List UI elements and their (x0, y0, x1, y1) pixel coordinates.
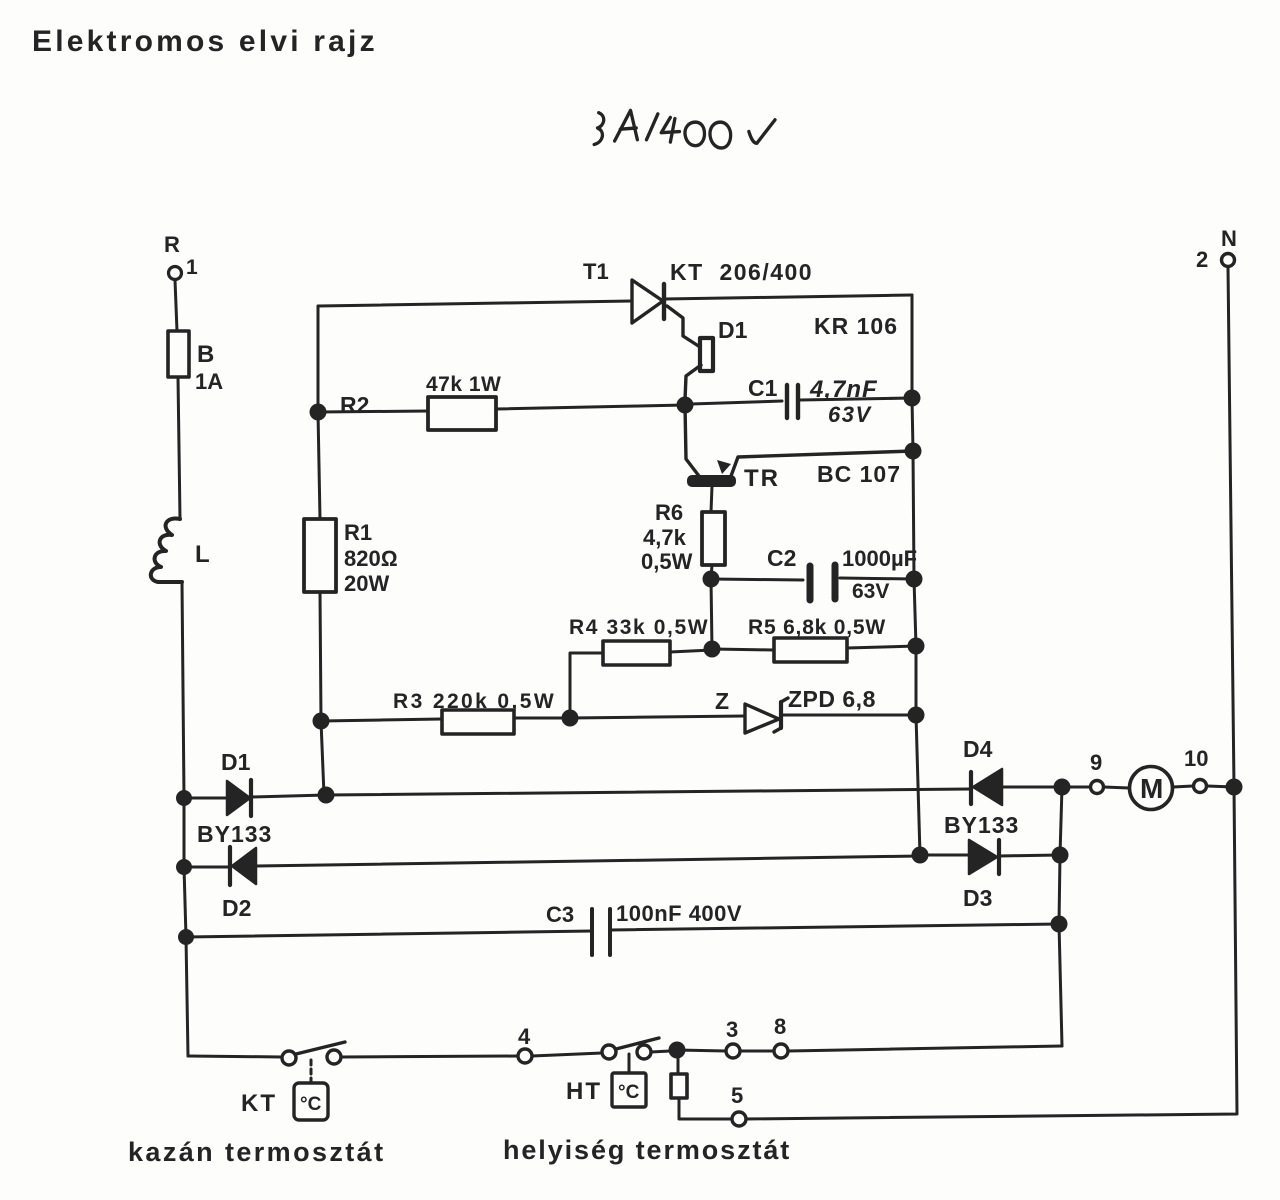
svg-text:R3 220k 0,5W: R3 220k 0,5W (393, 690, 556, 713)
wire (570, 653, 603, 718)
svg-text:1000µF: 1000µF (842, 546, 917, 571)
svg-text:3: 3 (726, 1017, 738, 1042)
wire (532, 1053, 602, 1056)
node (562, 710, 579, 727)
wire (1173, 786, 1193, 787)
svg-text:8: 8 (774, 1014, 786, 1039)
wire bottom row to node 8 (788, 1046, 1062, 1051)
svg-text:4: 4 (518, 1024, 531, 1049)
svg-text:0,5W: 0,5W (641, 549, 693, 574)
capacitor C2 1000uF 63V (711, 545, 917, 603)
node (313, 713, 330, 730)
diode D1 BY133 (221, 749, 251, 816)
wire D2 row (184, 866, 230, 869)
node (176, 859, 192, 875)
wire (1062, 786, 1090, 789)
wire left rail (184, 798, 188, 1056)
diode D4 BY133 (944, 736, 1019, 838)
resistor R3 220k 0.5W (393, 690, 556, 734)
wire (320, 592, 321, 721)
resistor R1 820ohm 20W (304, 519, 398, 596)
svg-text:D2: D2 (222, 895, 251, 921)
node (906, 571, 923, 588)
wire (1207, 786, 1234, 787)
resistor R5 6.8k 0.5W (748, 616, 886, 662)
svg-text:10: 10 (1184, 746, 1208, 771)
svg-text:47k 1W: 47k 1W (426, 373, 501, 396)
wire (251, 795, 326, 797)
svg-text:4,7nF: 4,7nF (809, 376, 878, 403)
svg-text:M: M (1140, 773, 1163, 804)
svg-text:B: B (197, 341, 214, 368)
wire (318, 411, 428, 412)
wire (670, 650, 712, 652)
node (1054, 779, 1071, 796)
svg-text:1A: 1A (195, 369, 223, 394)
wire (182, 582, 184, 798)
handwritten rating 3A/400V (594, 110, 775, 148)
wire (321, 721, 324, 795)
wire (175, 280, 177, 331)
wire (341, 1056, 518, 1057)
wire (677, 1050, 726, 1051)
svg-text:C2: C2 (767, 545, 796, 571)
svg-text:kazán termosztát: kazán termosztát (128, 1137, 385, 1167)
accelerator resistor branch (671, 1050, 732, 1119)
motor M (1130, 767, 1173, 810)
wire (920, 854, 969, 857)
svg-text:°C: °C (618, 1082, 640, 1103)
svg-text:63V: 63V (852, 580, 889, 603)
svg-text:9: 9 (1090, 750, 1102, 775)
node (176, 790, 192, 806)
wire (326, 789, 971, 795)
node (1052, 847, 1069, 864)
node (318, 787, 335, 804)
svg-text:820Ω: 820Ω (344, 546, 398, 571)
zener Z ZPD6.8 (715, 686, 876, 733)
svg-text:20W: 20W (344, 571, 389, 596)
wire top rail (318, 301, 632, 306)
svg-text:R5 6,8k 0,5W: R5 6,8k 0,5W (748, 616, 886, 639)
terminal 4 (518, 1049, 532, 1063)
node (669, 1042, 686, 1059)
svg-text:KT: KT (241, 1090, 277, 1117)
svg-text:R2: R2 (340, 392, 369, 418)
svg-text:5: 5 (731, 1083, 743, 1108)
thermostat switch HT (566, 1038, 659, 1107)
diode D2 BY133 (197, 821, 272, 921)
wire right mid column (1059, 787, 1062, 1046)
terminal 10 (1194, 780, 1207, 793)
node (1226, 779, 1243, 796)
terminal 3 (726, 1044, 740, 1058)
wire (256, 856, 920, 866)
node (912, 847, 929, 864)
resistor R6 4.7k 0.5W (641, 500, 725, 574)
node R2 (310, 404, 327, 421)
svg-text:63V: 63V (828, 402, 872, 427)
wire (847, 646, 916, 648)
diac D1 KR106 (700, 313, 898, 371)
wire collector lead (685, 405, 699, 476)
wire (321, 719, 442, 721)
svg-text:helyiség termosztát: helyiség termosztát (503, 1135, 791, 1165)
svg-text:TR: TR (744, 465, 780, 492)
node (908, 638, 925, 655)
svg-text:R6: R6 (655, 500, 683, 525)
wire (740, 1050, 774, 1053)
node (677, 397, 694, 414)
svg-text:BY133: BY133 (197, 821, 272, 847)
wire (781, 714, 916, 717)
svg-text:R1: R1 (344, 520, 372, 545)
wire (711, 486, 712, 512)
svg-text:4,7k: 4,7k (643, 525, 687, 550)
svg-text:2: 2 (1196, 247, 1208, 272)
svg-text:1: 1 (186, 256, 198, 279)
wire left column lower (318, 412, 320, 519)
fuse B 1A (168, 331, 189, 377)
svg-text:R4 33k 0,5W: R4 33k 0,5W (569, 616, 709, 639)
wire (664, 295, 912, 299)
svg-text:D1: D1 (221, 749, 251, 775)
svg-text:HT: HT (566, 1078, 602, 1105)
svg-text:C3: C3 (546, 902, 574, 927)
svg-text:°C: °C (300, 1094, 322, 1115)
terminal 8 (774, 1044, 788, 1058)
node (1051, 916, 1068, 933)
wire (1104, 787, 1129, 788)
resistor 47k 1W (428, 397, 496, 430)
svg-text:N: N (1221, 226, 1237, 251)
svg-text:L: L (195, 541, 210, 568)
capacitor C1 (691, 375, 912, 427)
svg-text:T1: T1 (583, 259, 609, 284)
capacitor C3 100nF 400V (186, 901, 1059, 955)
resistor R4 33k 0.5W (569, 616, 709, 665)
wire (711, 565, 712, 579)
svg-text:Elektromos elvi rajz: Elektromos elvi rajz (32, 25, 378, 58)
diode D3 BY133 (963, 840, 999, 911)
svg-text:D3: D3 (963, 885, 992, 911)
svg-text:D4: D4 (963, 736, 993, 762)
wire (1002, 786, 1062, 789)
wire (712, 649, 774, 650)
svg-text:KT 206/400: KT 206/400 (670, 259, 813, 285)
svg-text:100nF 400V: 100nF 400V (616, 901, 742, 926)
terminal 5 (732, 1112, 746, 1126)
thyristor T1 (583, 259, 664, 323)
wire bottom left corner (188, 1056, 282, 1057)
wire (514, 717, 570, 720)
wire (999, 855, 1060, 856)
node (704, 641, 721, 658)
wire (651, 1051, 670, 1052)
node (178, 929, 194, 945)
svg-text:C1: C1 (748, 375, 778, 401)
svg-text:ZPD 6,8: ZPD 6,8 (788, 686, 876, 712)
wire N rail (745, 267, 1237, 1119)
svg-text:Z: Z (715, 688, 729, 714)
wire right rail (912, 295, 920, 855)
svg-text:BY133: BY133 (944, 812, 1019, 838)
inductor L (151, 518, 182, 582)
terminal 9 (1091, 781, 1104, 794)
thermostat switch KT (241, 1042, 345, 1120)
svg-text:R: R (164, 232, 180, 257)
wire D1 row (184, 797, 227, 800)
transistor TR BC107 (688, 451, 913, 492)
wire (178, 377, 180, 519)
node (703, 571, 720, 588)
wire (711, 579, 712, 649)
wire (496, 405, 685, 409)
node (908, 707, 925, 724)
node (905, 443, 922, 460)
wire left column (317, 306, 320, 412)
wire (685, 365, 701, 400)
svg-text:BC 107: BC 107 (817, 461, 901, 487)
wire gate (667, 306, 700, 347)
svg-text:D1: D1 (718, 317, 748, 343)
wire (570, 716, 745, 718)
svg-text:KR 106: KR 106 (814, 313, 898, 339)
node (904, 390, 921, 407)
